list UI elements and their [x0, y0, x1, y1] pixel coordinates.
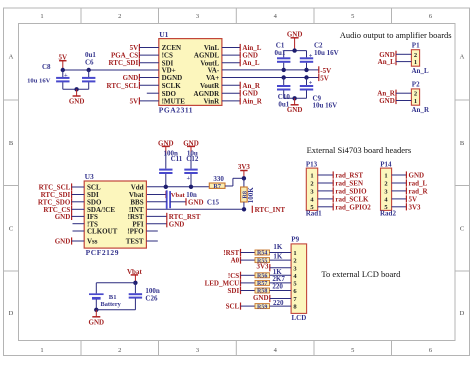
svg-text:R7: R7 — [213, 183, 221, 190]
svg-text:C: C — [9, 226, 13, 233]
svg-text:3V3: 3V3 — [409, 203, 422, 211]
svg-text:VinR: VinR — [203, 98, 220, 106]
connector P9 — [291, 236, 307, 314]
svg-text:1: 1 — [293, 250, 296, 257]
svg-text:An_L: An_L — [378, 58, 395, 66]
wire battery top rail — [96, 283, 135, 294]
svg-text:R54: R54 — [257, 251, 267, 257]
wire+label RTC_SDI to U3 SDI — [41, 191, 85, 199]
capacitor C15 10n — [167, 190, 220, 209]
wire+label P13 pin 1 to rad_RST — [318, 171, 364, 179]
svg-text:2: 2 — [293, 258, 296, 265]
junction bottom rail GND — [292, 96, 296, 100]
resistor R8 100K — [241, 187, 255, 204]
svg-text:Rad1: Rad1 — [306, 210, 322, 218]
capacitor C26 100n — [129, 283, 160, 310]
svg-text:2: 2 — [118, 347, 121, 354]
ground GND below C8/C6 — [69, 89, 85, 105]
wire+label An_L to P1 pin 1 — [378, 58, 412, 66]
wire+label GND to P9 pin 7 — [253, 294, 291, 302]
junction GND rail — [74, 87, 78, 91]
wire+label U1 VoutR to An_R — [222, 82, 261, 90]
wire+label U1 VinR to Ain_R — [222, 97, 263, 105]
svg-text:2: 2 — [414, 91, 417, 98]
wire+label U1 AGNDR to GND — [222, 90, 258, 98]
svg-text:TEST: TEST — [126, 238, 144, 246]
wire R56 to P9 pin 4 — [270, 274, 292, 276]
svg-text:P14: P14 — [380, 160, 392, 168]
net name Rad2 under P14 — [380, 210, 396, 218]
svg-text:GND: GND — [55, 213, 71, 221]
svg-text:330: 330 — [213, 175, 224, 183]
svg-text:10u 16V: 10u 16V — [313, 101, 338, 109]
ground GND above C11 — [158, 139, 174, 168]
junction C9 on VA+ wire — [304, 75, 308, 79]
svg-text:GND: GND — [188, 198, 204, 206]
svg-text:B1: B1 — [109, 294, 117, 301]
wire+label P14 pin 4 to 5V — [392, 195, 417, 203]
wire+label RTC_SDI to U1 SDI — [108, 59, 158, 67]
wire+label GND to P1 pin 2 — [379, 51, 411, 59]
stub U3 TEST — [146, 240, 157, 242]
svg-text:SCLK: SCLK — [162, 82, 182, 90]
net name An_R under P2 — [412, 106, 430, 114]
svg-text:DGND: DGND — [162, 74, 183, 82]
svg-text:2: 2 — [310, 180, 313, 187]
svg-text:+: + — [187, 175, 191, 182]
wire+label !CS to R56 — [228, 272, 255, 280]
svg-text:P1: P1 — [412, 41, 420, 49]
P2 pin 2 number — [414, 91, 417, 98]
svg-text:3V3: 3V3 — [238, 163, 251, 171]
value label 2K7 for R57 — [272, 275, 285, 283]
svg-text:1: 1 — [40, 347, 43, 354]
wire+label RTC_SCL to U3 SCL — [39, 183, 85, 191]
svg-text:An_L: An_L — [242, 59, 259, 67]
resistor R55 1K — [255, 258, 270, 265]
P14 pin 5 number — [384, 204, 388, 211]
net name An_L under P1 — [412, 67, 429, 75]
svg-text:rad_SDIO: rad_SDIO — [335, 188, 367, 196]
svg-text:C8: C8 — [42, 63, 51, 71]
P13 pin 3 number — [310, 188, 314, 195]
net -5V wire from U1 VA- — [222, 66, 331, 75]
P2 pin 1 number — [414, 98, 417, 105]
P1 pin 1 number — [414, 59, 417, 66]
svg-text:rad_SEN: rad_SEN — [335, 180, 363, 188]
power 5V above C8 — [59, 54, 68, 70]
value label 1K for R56 — [273, 268, 283, 276]
svg-text:1: 1 — [384, 172, 387, 179]
wire battery to GND node — [95, 299, 97, 309]
wire+label RTC_SDO to U3 SDO — [38, 198, 84, 206]
stub U1 SDO — [147, 92, 159, 94]
wire R57 to P9 pin 5 — [270, 282, 292, 284]
svg-text:U3: U3 — [85, 172, 94, 181]
svg-text:GND: GND — [55, 238, 71, 246]
svg-text:1K: 1K — [273, 253, 283, 261]
capacitor C12 10u — [184, 149, 199, 187]
svg-text:An_R: An_R — [412, 106, 430, 114]
capacitor C2 10u 16V — [300, 41, 339, 70]
wire 5V rail C8/C6 to U1 VD+ — [63, 69, 159, 71]
wire+label P13 pin 2 to rad_SEN — [318, 179, 363, 187]
svg-text:GND: GND — [89, 318, 105, 326]
wire R8 to RTC_INT node — [243, 202, 245, 209]
svg-text:!PFO: !PFO — [127, 228, 144, 236]
svg-text:An_L: An_L — [412, 67, 429, 75]
wire+label U1 AGNDL to GND — [222, 52, 258, 60]
svg-text:VoutR: VoutR — [200, 82, 220, 90]
junction RTC_INT node — [242, 207, 246, 211]
value label 220 for R59 — [273, 299, 284, 307]
wire+label U1 VoutL to An_L — [222, 59, 260, 67]
svg-text:C2: C2 — [314, 41, 323, 49]
svg-text:GND: GND — [287, 106, 303, 114]
svg-text:P13: P13 — [306, 160, 318, 168]
stub U3 !PFO — [146, 230, 157, 232]
P13 pin 5 number — [310, 204, 314, 211]
svg-text:2: 2 — [384, 180, 387, 187]
net name LCD under P9 — [292, 314, 307, 322]
svg-text:1: 1 — [310, 172, 313, 179]
svg-text:LCD: LCD — [292, 314, 307, 322]
resistor R7 330 — [209, 175, 225, 190]
junction Vbat node — [133, 281, 137, 285]
wire R7 to 3V3 node — [225, 178, 244, 186]
wire+label C15 to GND — [170, 198, 203, 206]
svg-text:U1: U1 — [159, 30, 168, 39]
svg-text:GND: GND — [169, 220, 185, 228]
svg-text:10u 16V: 10u 16V — [27, 77, 51, 84]
svg-text:100K: 100K — [247, 187, 255, 204]
wire+label P14 pin 2 to rad_L — [392, 179, 428, 187]
svg-text:To external LCD board: To external LCD board — [321, 269, 401, 279]
svg-text:GND: GND — [409, 172, 425, 180]
IC U1 PGA2311 — [159, 30, 222, 114]
svg-text:SCL: SCL — [226, 303, 240, 311]
junction top rail GND — [292, 48, 296, 52]
wire+label P14 pin 5 to 3V3 — [392, 203, 421, 211]
wire+label P14 pin 3 to rad_R — [392, 187, 429, 195]
P13 pin 2 number — [310, 180, 313, 187]
wire+label PGA_CS to U1 !CS — [111, 52, 159, 60]
svg-text:CLKOUT: CLKOUT — [87, 228, 118, 236]
wire 3V3 node to R8 — [243, 178, 245, 187]
svg-text:+: + — [309, 80, 313, 87]
net 5V wire from U1 VA+ — [222, 74, 329, 83]
svg-text:R56: R56 — [257, 274, 267, 280]
svg-text:C1: C1 — [276, 41, 285, 49]
wire+label P14 pin 1 to GND — [392, 171, 424, 179]
wire GND rail under C8 C6 — [63, 88, 89, 90]
wire+label P13 pin 3 to rad_SDIO — [318, 187, 367, 195]
svg-text:C26: C26 — [145, 294, 158, 302]
P9 pin 1 number — [293, 250, 296, 257]
svg-text:R59: R59 — [257, 304, 267, 310]
P9 pin 6 number — [293, 288, 297, 295]
P9 pin 5 number — [293, 281, 297, 288]
capacitor C8 10u 16V — [27, 63, 69, 89]
svg-text:1K: 1K — [273, 243, 283, 251]
wire+label An_R to P2 pin 2 — [377, 90, 411, 98]
svg-text:Battery: Battery — [101, 301, 122, 308]
svg-text:B: B — [460, 140, 465, 147]
wire R55 to P9 pin 2 — [270, 259, 292, 261]
ground GND above C1 C2 — [287, 30, 303, 50]
svg-text:Vbat: Vbat — [171, 192, 186, 199]
svg-text:An_R: An_R — [242, 82, 260, 90]
svg-text:C15: C15 — [207, 198, 220, 206]
power 3V3 — [238, 163, 251, 179]
value label 1K for R55 — [273, 253, 283, 261]
svg-text:5V: 5V — [409, 196, 418, 204]
battery B1 — [89, 294, 122, 308]
capacitor C9 10u 16V — [300, 78, 337, 110]
wire+label !RST to R54 — [223, 249, 255, 257]
wire R59 to P9 pin 8 — [270, 305, 292, 307]
connector P13 — [306, 160, 318, 210]
wire+label U1 VinL to Ain_L — [222, 44, 262, 52]
wire+label RTC_CS to U3 SDA/!CE — [43, 206, 84, 214]
svg-text:0u1: 0u1 — [275, 49, 286, 57]
title: Audio output to amplifier boards — [340, 30, 452, 40]
resistor R57 2K7 — [255, 280, 270, 287]
wire+label A0 to R55 — [231, 257, 255, 265]
svg-text:rad_L: rad_L — [409, 180, 428, 188]
capacitor C11 100n — [159, 149, 183, 187]
wire R54 to P9 pin 1 — [270, 252, 292, 254]
wire+label GND to U3 IFS — [55, 213, 84, 221]
svg-text:Ain_R: Ain_R — [242, 97, 262, 105]
svg-text:C: C — [460, 226, 464, 233]
svg-text:VA+: VA+ — [206, 74, 219, 82]
svg-text:A: A — [9, 54, 14, 61]
P9 pin 3 number — [293, 265, 297, 272]
capacitor C10 0u1 — [277, 78, 290, 109]
svg-text:rad_RST: rad_RST — [335, 172, 363, 180]
svg-text:rad_R: rad_R — [409, 188, 429, 196]
connector P14 — [380, 160, 392, 210]
svg-text:5V: 5V — [130, 97, 139, 105]
resistor R59 220 — [255, 304, 270, 311]
P1 pin 2 number — [414, 52, 417, 59]
svg-text:R57: R57 — [257, 281, 267, 287]
svg-text:1: 1 — [414, 59, 417, 66]
svg-text:PGA2311: PGA2311 — [159, 106, 193, 115]
ground GND below C9 C10 — [287, 98, 303, 114]
svg-text:rad_SCLK: rad_SCLK — [335, 196, 369, 204]
svg-text:A: A — [460, 54, 465, 61]
junction C10 on VA+ wire — [282, 75, 286, 79]
wire+label 3V3 to P9 pin 3 — [256, 262, 291, 271]
svg-text:Vss: Vss — [87, 238, 98, 246]
svg-text:P9: P9 — [291, 236, 299, 244]
P14 pin 2 number — [384, 180, 387, 187]
junction C12 on Vdd rail — [189, 185, 193, 189]
junction C8/5V — [61, 68, 65, 72]
svg-text:C12: C12 — [186, 155, 199, 163]
IC U3 PCF2129 — [84, 172, 146, 257]
wire U3 BBS to C15 — [146, 201, 166, 203]
wire battery bottom rail — [96, 309, 135, 311]
resistor R56 1K — [255, 273, 270, 280]
svg-text:RTC_SCL: RTC_SCL — [107, 82, 139, 90]
wire+label RTC_SCL to U1 SCLK — [107, 82, 159, 90]
resistor R54 1K — [255, 250, 270, 257]
value label 1K for R54 — [273, 243, 283, 251]
svg-text:5: 5 — [351, 347, 354, 354]
svg-text:2: 2 — [414, 52, 417, 59]
svg-text:5V: 5V — [320, 75, 329, 83]
svg-text:GND: GND — [69, 98, 85, 106]
net name Rad1 under P13 — [306, 210, 322, 218]
svg-text:GND: GND — [379, 97, 395, 105]
title: To external LCD board — [321, 269, 401, 279]
capacitor C1 0u1 — [275, 41, 291, 70]
junction battery GND node — [94, 308, 98, 312]
svg-text:10u 16V: 10u 16V — [314, 49, 339, 57]
svg-text:B: B — [9, 140, 14, 147]
svg-text:1: 1 — [414, 98, 417, 105]
stub U3 CLKOUT — [73, 230, 85, 232]
wire+label SDI to R58 — [228, 287, 255, 295]
P14 pin 1 number — [384, 172, 387, 179]
wire+label U3 !RST to RTC_RST — [146, 213, 200, 221]
svg-text:C11: C11 — [171, 155, 183, 163]
svg-text:220: 220 — [272, 282, 283, 290]
wire C9 C10 bottom rail — [284, 97, 307, 99]
P14 pin 4 number — [384, 196, 388, 203]
title: External Si4703 board headers — [307, 145, 412, 155]
wire R58 to P9 pin 6 — [270, 290, 292, 292]
stub U3 !TS — [73, 223, 85, 225]
svg-text:P2: P2 — [412, 81, 420, 89]
P9 pin 8 number — [293, 304, 297, 311]
svg-text:GND: GND — [253, 294, 269, 302]
svg-text:External Si4703 board headers: External Si4703 board headers — [307, 145, 412, 155]
svg-text:D: D — [9, 310, 14, 317]
P9 pin 4 number — [293, 273, 297, 280]
svg-text:PCF2129: PCF2129 — [86, 248, 119, 257]
wire+label U3 Vbat to Vbat — [146, 191, 185, 199]
svg-text:GND: GND — [123, 74, 139, 82]
svg-text:D: D — [460, 310, 465, 317]
svg-text:5: 5 — [351, 13, 354, 20]
power Vbat above C26 — [127, 268, 142, 283]
svg-text:C6: C6 — [85, 58, 94, 66]
P14 pin 3 number — [384, 188, 388, 195]
P13 pin 4 number — [310, 196, 314, 203]
ground GND above C12 — [183, 139, 199, 168]
junction C1 on VA- wire — [282, 68, 286, 72]
svg-text:!MUTE: !MUTE — [162, 98, 186, 106]
wire+label GND to U1 DGND — [123, 74, 159, 82]
wire U3 !INT to RTC_INT label — [146, 206, 285, 214]
connector P2 — [411, 81, 420, 106]
capacitor C6 0u1 — [82, 51, 96, 89]
value label 220 for R58 — [272, 282, 283, 290]
P9 pin 2 number — [293, 258, 296, 265]
svg-text:2: 2 — [118, 13, 121, 20]
wire+label SCL to R59 — [226, 303, 255, 311]
svg-text:RTC_SDI: RTC_SDI — [108, 59, 138, 67]
wire+label 5V to U1 ZCEN — [130, 44, 159, 52]
svg-text:rad_GPIO2: rad_GPIO2 — [335, 203, 371, 211]
P9 pin 7 number — [293, 296, 297, 303]
junction 3V3 node — [242, 176, 246, 180]
wire+label P13 pin 5 to rad_GPIO2 — [318, 203, 372, 211]
junction C6/5V — [87, 68, 91, 72]
junction C2 on VA- wire — [304, 68, 308, 72]
wire+label 5V to U1 !MUTE — [130, 97, 159, 105]
svg-text:1: 1 — [40, 13, 43, 20]
junction C11 on Vdd rail — [164, 185, 168, 189]
wire 3V3 rail U3 Vdd to R7 — [146, 186, 209, 188]
svg-text:Rad2: Rad2 — [380, 210, 396, 218]
P13 pin 1 number — [310, 172, 313, 179]
svg-text:A0: A0 — [231, 257, 240, 265]
svg-text:SDI: SDI — [228, 287, 240, 295]
svg-text:Audio output to amplifier boar: Audio output to amplifier boards — [340, 30, 452, 40]
wire+label U3 PFI to GND — [146, 220, 184, 228]
svg-text:3: 3 — [196, 13, 199, 20]
svg-text:RTC_INT: RTC_INT — [255, 206, 286, 214]
svg-text:3V3: 3V3 — [256, 262, 269, 270]
resistor R58 220 — [255, 288, 270, 295]
wire+label GND to P2 pin 1 — [379, 97, 411, 105]
wire+label P13 pin 4 to rad_SCLK — [318, 195, 369, 203]
connector P1 — [411, 41, 420, 66]
wire C1 C2 top rail — [284, 51, 307, 58]
wire+label LED_MCU to R57 — [205, 279, 255, 287]
ground GND below battery — [89, 310, 105, 327]
svg-text:3: 3 — [196, 347, 199, 354]
wire+label GND to U3 Vss — [55, 237, 84, 245]
